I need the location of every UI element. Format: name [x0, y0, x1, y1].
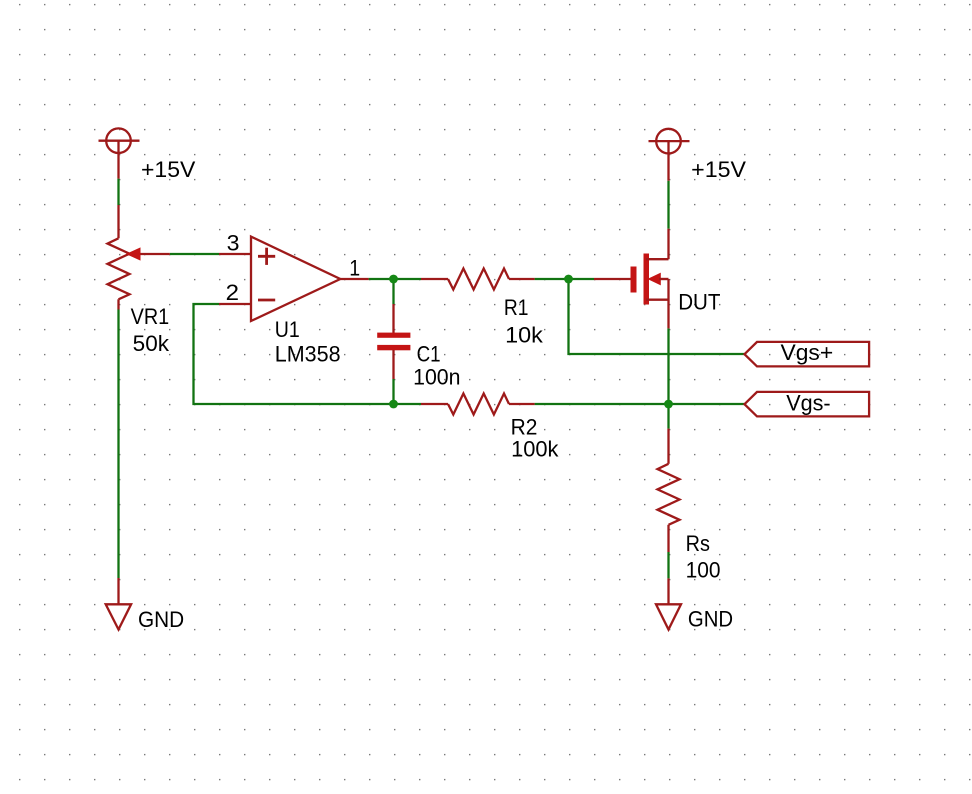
svg-text:+15V: +15V [141, 157, 196, 182]
svg-text:DUT: DUT [678, 289, 720, 314]
svg-text:GND: GND [138, 607, 184, 632]
svg-text:GND: GND [688, 606, 733, 631]
svg-text:100: 100 [686, 557, 721, 582]
svg-text:Rs: Rs [686, 531, 710, 556]
svg-text:100n: 100n [413, 365, 460, 390]
svg-text:2: 2 [226, 280, 239, 305]
svg-text:VR1: VR1 [131, 304, 170, 329]
svg-text:R1: R1 [504, 295, 529, 320]
svg-text:100k: 100k [511, 436, 559, 461]
svg-text:U1: U1 [275, 317, 300, 342]
svg-text:LM358: LM358 [275, 341, 341, 366]
svg-text:+15V: +15V [691, 157, 746, 182]
svg-text:Vgs+: Vgs+ [781, 340, 834, 365]
svg-text:3: 3 [227, 231, 240, 256]
svg-text:1: 1 [349, 255, 360, 280]
svg-text:10k: 10k [505, 322, 544, 347]
svg-text:C1: C1 [417, 342, 441, 367]
svg-text:Vgs-: Vgs- [786, 391, 830, 416]
svg-text:50k: 50k [133, 331, 170, 356]
